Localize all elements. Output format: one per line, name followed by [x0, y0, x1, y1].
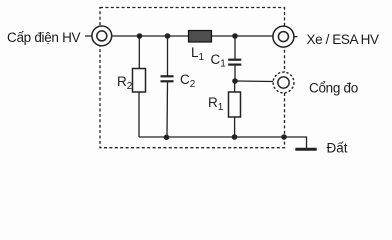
- junction: C2 at top bus: [165, 33, 171, 39]
- svg-text:R2: R2: [117, 74, 133, 92]
- junction: bottom bus at enclosure boundary: [281, 134, 287, 140]
- junction: R2 at top bus: [137, 33, 143, 39]
- junction: R1 at bottom bus: [232, 134, 238, 140]
- dashed enclosure box (filter network boundary): [100, 8, 285, 148]
- svg-text:R1: R1: [208, 95, 224, 113]
- svg-text:L1: L1: [191, 45, 205, 63]
- svg-text:Xe / ESA HV: Xe / ESA HV: [307, 32, 380, 47]
- svg-text:C2: C2: [180, 72, 196, 90]
- inductor L1 (filled block symbol): [189, 31, 212, 43]
- junction: node C1/R1/measuring port: [232, 78, 238, 84]
- capacitor C1: [228, 36, 241, 81]
- wire: top bus from Cap dien HV connector to Xe/ESA HV connector: [85, 35, 273, 37]
- wire: bottom return bus with drop to earth: [139, 137, 307, 148]
- wire: node between C1 and R1 to measuring port: [235, 80, 273, 83]
- ground (Dat) earth bar: [295, 148, 316, 151]
- capacitor C2: [161, 36, 174, 137]
- resistor R2: [133, 36, 146, 137]
- junction: C2 at bottom bus: [164, 135, 170, 141]
- svg-text:C1: C1: [211, 52, 227, 70]
- svg-text:Cấp điện HV: Cấp điện HV: [7, 30, 81, 45]
- svg-text:Đất: Đất: [327, 141, 348, 156]
- connector J2 (Xe / ESA HV output), coaxial symbol: [273, 26, 294, 47]
- resistor R1: [229, 81, 241, 137]
- wire: stub right of connector J2: [294, 36, 298, 38]
- svg-text:Cổng đo: Cổng đo: [309, 81, 358, 96]
- measuring port (Cong do), dashed coaxial symbol: [273, 72, 294, 93]
- connector J1 (Cap dien HV input), coaxial symbol: [92, 26, 112, 46]
- junction: C1 at top bus: [232, 33, 238, 39]
